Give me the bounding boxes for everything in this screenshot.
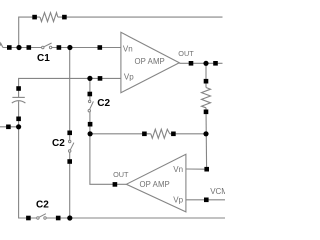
terminal square capacitor top — [16, 86, 21, 91]
terminal square branch A lower — [67, 159, 72, 164]
terminal square U1 out right — [213, 61, 218, 66]
resistor R-left (cropped at edge) — [0, 43, 3, 47]
wire top rail y=17 — [19, 17, 40, 47]
capacitor C-left flat plate — [12, 96, 24, 98]
terminal square Vp feed — [98, 76, 103, 81]
terminal square R-mid right — [171, 132, 176, 137]
terminal square branch B upper — [88, 92, 93, 97]
terminal square branch B lower — [88, 122, 93, 127]
wire vertical branch A lower x=69.7 — [69, 152, 71, 218]
terminal square main wire 1 — [7, 45, 12, 50]
wire U2 Vp y=199.8 — [186, 199, 225, 201]
switch C2 branch B — [88, 100, 93, 112]
wire left input y=126.8 — [0, 126, 19, 128]
terminal square R-right top — [204, 79, 209, 84]
terminal square U2 out — [113, 182, 118, 187]
wire U1 output y=63.3 — [179, 62, 222, 64]
svg-text:OP AMP: OP AMP — [140, 180, 170, 189]
svg-text:C1: C1 — [37, 53, 50, 64]
svg-text:OUT: OUT — [113, 170, 129, 179]
terminal square main wire 3 — [57, 45, 62, 50]
wire U2 Vn y=169 — [186, 168, 207, 170]
wire top rail right segment — [58, 16, 223, 18]
wire vertical branch A upper x=69.7 — [69, 48, 71, 141]
wire capacitor bottom to bottom rail — [19, 101, 37, 218]
terminal square left input — [6, 125, 11, 130]
svg-text:VCM: VCM — [210, 187, 225, 196]
node dot branch A junction — [67, 45, 72, 50]
node dot U1 out — [203, 61, 208, 66]
node dot bottom rail — [67, 215, 72, 220]
op-amp U2 triangle — [126, 154, 186, 212]
wire middle y=133.8 right segment — [170, 133, 206, 135]
wire main input y=47.5 left of switch C1 — [3, 47, 42, 49]
svg-text:Vp: Vp — [173, 195, 183, 204]
node dot capacitor/left-input junction — [16, 124, 21, 129]
terminal square U2 Vn — [204, 167, 209, 172]
op-amp U1 triangle — [121, 32, 179, 92]
switch C2 branch A — [69, 140, 74, 152]
svg-text:OUT: OUT — [178, 49, 194, 58]
wire main input y=47.5 right of switch C1 — [52, 47, 121, 49]
svg-text:Vn: Vn — [123, 44, 133, 53]
wire middle y=133.8 left segment — [90, 133, 151, 135]
resistor R-right vertical — [202, 88, 211, 108]
wire right vertical lower x=206 — [205, 108, 208, 169]
terminal square U1 out — [189, 61, 194, 66]
node dot branch B junction — [87, 76, 92, 81]
svg-text:Vn: Vn — [173, 165, 183, 174]
terminal square R-mid left — [142, 132, 147, 137]
svg-text:C2: C2 — [97, 98, 110, 109]
svg-text:C2: C2 — [36, 200, 49, 211]
svg-text:OP AMP: OP AMP — [135, 57, 165, 66]
wire bottom rail right of switch C2 — [46, 217, 225, 219]
wire right vertical upper x=206 — [205, 63, 207, 87]
wire vertical branch B upper x=89.9 — [89, 78, 91, 100]
switch C1 — [42, 43, 52, 49]
terminal square capacitor bottom — [16, 117, 21, 122]
resistor R-mid — [151, 129, 170, 138]
terminal square U2 Vp — [204, 198, 209, 203]
terminal square bottom rail right — [56, 216, 61, 221]
capacitor C-left curved plate — [12, 101, 26, 103]
wire vertical branch B lower x=89.9 — [90, 112, 126, 185]
terminal square main wire 2 — [27, 45, 32, 50]
wire Vp feed y=78.4 — [19, 78, 121, 97]
switch C2 bottom — [37, 214, 47, 220]
svg-text:Vp: Vp — [124, 72, 134, 81]
terminal square top-left — [32, 15, 37, 20]
terminal square R-right bottom — [204, 110, 209, 115]
svg-text:C2: C2 — [52, 138, 65, 149]
terminal square bottom rail left — [26, 216, 31, 221]
node dot middle wire left — [88, 131, 93, 136]
terminal square branch A upper — [67, 131, 72, 136]
node dot middle wire right — [203, 131, 208, 136]
node dot main/top junction — [16, 45, 21, 50]
resistor R-top — [40, 13, 58, 22]
terminal square main wire 4 — [98, 45, 103, 50]
terminal square top-right — [62, 15, 67, 20]
